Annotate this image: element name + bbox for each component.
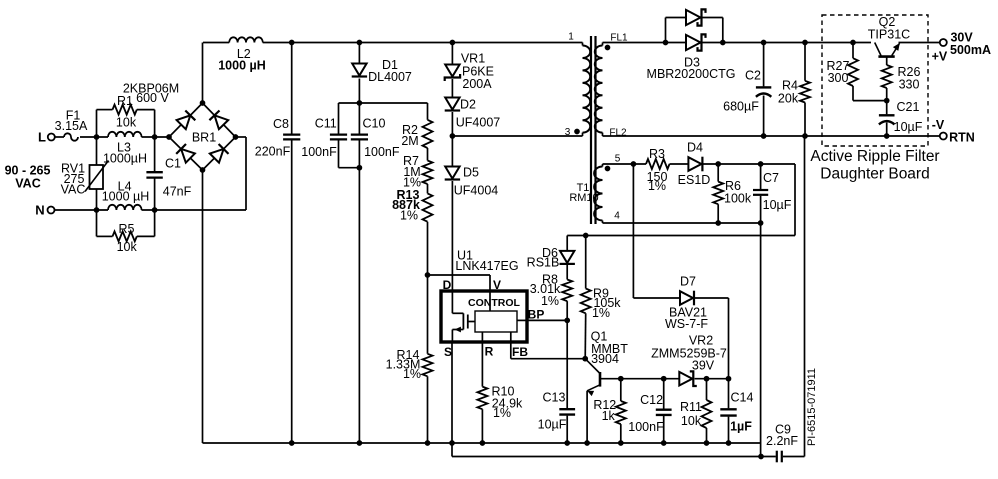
svg-text:10k: 10k bbox=[117, 240, 138, 254]
svg-text:TIP31C: TIP31C bbox=[868, 28, 910, 42]
svg-text:39V: 39V bbox=[692, 359, 715, 373]
svg-text:D4: D4 bbox=[687, 141, 703, 155]
svg-text:330: 330 bbox=[899, 78, 920, 92]
svg-text:VR1: VR1 bbox=[461, 51, 485, 65]
svg-text:500mA: 500mA bbox=[950, 43, 991, 57]
svg-text:WS-7-F: WS-7-F bbox=[665, 317, 708, 331]
svg-text:10µF: 10µF bbox=[538, 418, 567, 432]
svg-text:RS1B: RS1B bbox=[527, 256, 560, 270]
svg-text:D5: D5 bbox=[463, 166, 479, 180]
svg-text:1%: 1% bbox=[592, 306, 610, 320]
svg-text:R: R bbox=[485, 344, 494, 358]
svg-text:ZMM5259B-7: ZMM5259B-7 bbox=[651, 347, 727, 361]
svg-text:10k: 10k bbox=[681, 414, 702, 428]
svg-text:RM10: RM10 bbox=[569, 192, 598, 204]
svg-text:R5: R5 bbox=[119, 222, 135, 236]
svg-text:N: N bbox=[35, 203, 44, 218]
svg-text:1%: 1% bbox=[541, 294, 559, 308]
svg-text:PI-6515-071911: PI-6515-071911 bbox=[806, 368, 818, 446]
svg-text:UF4007: UF4007 bbox=[456, 116, 501, 130]
svg-text:C8: C8 bbox=[273, 117, 289, 131]
svg-text:BP: BP bbox=[528, 307, 545, 321]
svg-text:D7: D7 bbox=[680, 275, 696, 289]
svg-text:3: 3 bbox=[565, 127, 571, 138]
svg-text:UF4004: UF4004 bbox=[454, 184, 499, 198]
svg-text:C14: C14 bbox=[731, 391, 754, 405]
svg-text:ES1D: ES1D bbox=[678, 173, 711, 187]
svg-text:VR2: VR2 bbox=[689, 334, 713, 348]
svg-text:S: S bbox=[444, 345, 452, 359]
svg-text:R4: R4 bbox=[782, 79, 798, 93]
svg-text:C12: C12 bbox=[640, 393, 663, 407]
svg-text:CONTROL: CONTROL bbox=[468, 297, 520, 309]
svg-text:BR1: BR1 bbox=[192, 131, 216, 145]
svg-text:10k: 10k bbox=[116, 116, 137, 130]
svg-text:1%: 1% bbox=[493, 406, 511, 420]
svg-text:Active Ripple Filter: Active Ripple Filter bbox=[810, 148, 939, 165]
svg-text:C10: C10 bbox=[363, 117, 386, 131]
svg-text:LNK417EG: LNK417EG bbox=[455, 259, 518, 273]
svg-text:3.15A: 3.15A bbox=[55, 119, 88, 133]
svg-text:4: 4 bbox=[614, 211, 620, 222]
svg-text:C1: C1 bbox=[165, 157, 181, 171]
svg-text:R3: R3 bbox=[649, 147, 665, 161]
svg-text:R1: R1 bbox=[117, 94, 133, 108]
svg-text:1000 µH: 1000 µH bbox=[102, 190, 150, 204]
svg-text:1k: 1k bbox=[602, 409, 616, 423]
svg-text:1%: 1% bbox=[400, 208, 418, 222]
svg-text:100nF: 100nF bbox=[364, 145, 400, 159]
svg-text:1%: 1% bbox=[403, 367, 421, 381]
svg-text:47nF: 47nF bbox=[163, 185, 192, 199]
svg-text:C21: C21 bbox=[897, 100, 920, 114]
svg-text:+V: +V bbox=[932, 50, 948, 64]
svg-text:1: 1 bbox=[568, 32, 574, 43]
svg-text:FL1: FL1 bbox=[610, 33, 628, 44]
svg-text:680µF: 680µF bbox=[723, 100, 759, 114]
svg-text:100nF: 100nF bbox=[628, 420, 664, 434]
svg-text:V: V bbox=[493, 278, 501, 292]
svg-text:2M: 2M bbox=[401, 134, 418, 148]
svg-text:1000 µH: 1000 µH bbox=[218, 59, 266, 73]
svg-text:100nF: 100nF bbox=[301, 145, 337, 159]
svg-text:100k: 100k bbox=[724, 192, 752, 206]
svg-text:20k: 20k bbox=[778, 92, 799, 106]
svg-text:P6KE: P6KE bbox=[462, 64, 494, 78]
svg-text:MBR20200CTG: MBR20200CTG bbox=[647, 67, 736, 81]
svg-text:200A: 200A bbox=[462, 77, 492, 91]
svg-text:C11: C11 bbox=[315, 117, 337, 131]
svg-text:VAC: VAC bbox=[15, 177, 40, 191]
svg-text:300: 300 bbox=[828, 71, 849, 85]
svg-text:C2: C2 bbox=[745, 69, 761, 83]
svg-text:1000µH: 1000µH bbox=[103, 152, 147, 166]
svg-text:10µF: 10µF bbox=[763, 198, 792, 212]
svg-text:C7: C7 bbox=[763, 171, 779, 185]
svg-text:R11: R11 bbox=[680, 400, 702, 414]
svg-text:D: D bbox=[443, 278, 452, 292]
svg-text:1%: 1% bbox=[648, 179, 666, 193]
svg-text:L: L bbox=[38, 130, 46, 145]
svg-text:C13: C13 bbox=[543, 391, 566, 405]
svg-text:VAC: VAC bbox=[61, 183, 86, 197]
svg-text:Daughter Board: Daughter Board bbox=[820, 166, 929, 183]
svg-text:1µF: 1µF bbox=[730, 420, 752, 434]
svg-text:220nF: 220nF bbox=[255, 145, 291, 159]
svg-text:RTN: RTN bbox=[949, 131, 975, 145]
svg-text:2.2nF: 2.2nF bbox=[766, 434, 798, 448]
svg-text:FL2: FL2 bbox=[609, 128, 627, 139]
svg-text:600 V: 600 V bbox=[136, 91, 169, 105]
svg-text:10µF: 10µF bbox=[894, 120, 923, 134]
svg-text:D2: D2 bbox=[460, 98, 476, 112]
svg-text:FB: FB bbox=[512, 345, 528, 359]
svg-text:-V: -V bbox=[932, 118, 945, 132]
svg-text:90 - 265: 90 - 265 bbox=[5, 164, 51, 178]
svg-text:DL4007: DL4007 bbox=[368, 70, 412, 84]
svg-text:3904: 3904 bbox=[591, 352, 619, 366]
svg-text:5: 5 bbox=[615, 154, 621, 165]
